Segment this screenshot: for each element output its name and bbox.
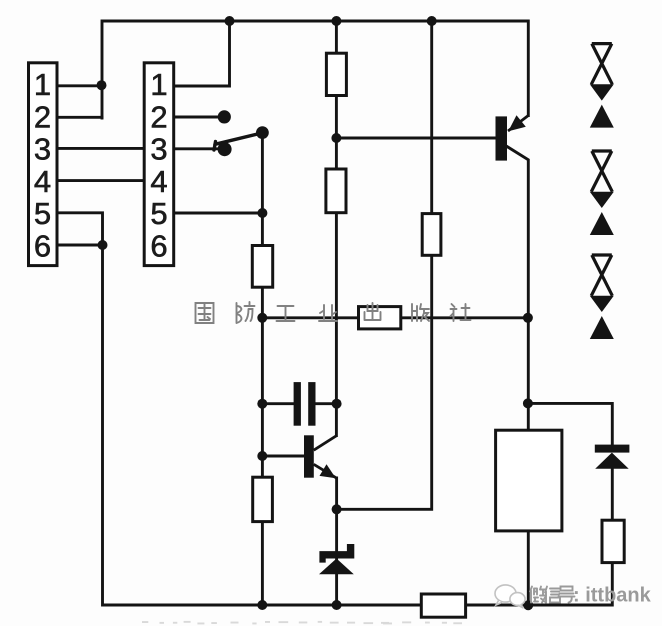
svg-text:6: 6	[34, 229, 51, 264]
svg-text:5: 5	[34, 196, 51, 231]
svg-text:6: 6	[150, 229, 167, 264]
svg-text:1: 1	[34, 67, 51, 102]
svg-text:: ittbank: : ittbank	[573, 585, 652, 607]
svg-text:2: 2	[150, 99, 167, 134]
svg-text:3: 3	[34, 132, 51, 167]
svg-text:4: 4	[34, 164, 51, 199]
svg-text:1: 1	[150, 67, 167, 102]
svg-text:4: 4	[150, 164, 167, 199]
svg-text:2: 2	[34, 99, 51, 134]
svg-text:3: 3	[150, 132, 167, 167]
svg-text:5: 5	[150, 196, 167, 231]
